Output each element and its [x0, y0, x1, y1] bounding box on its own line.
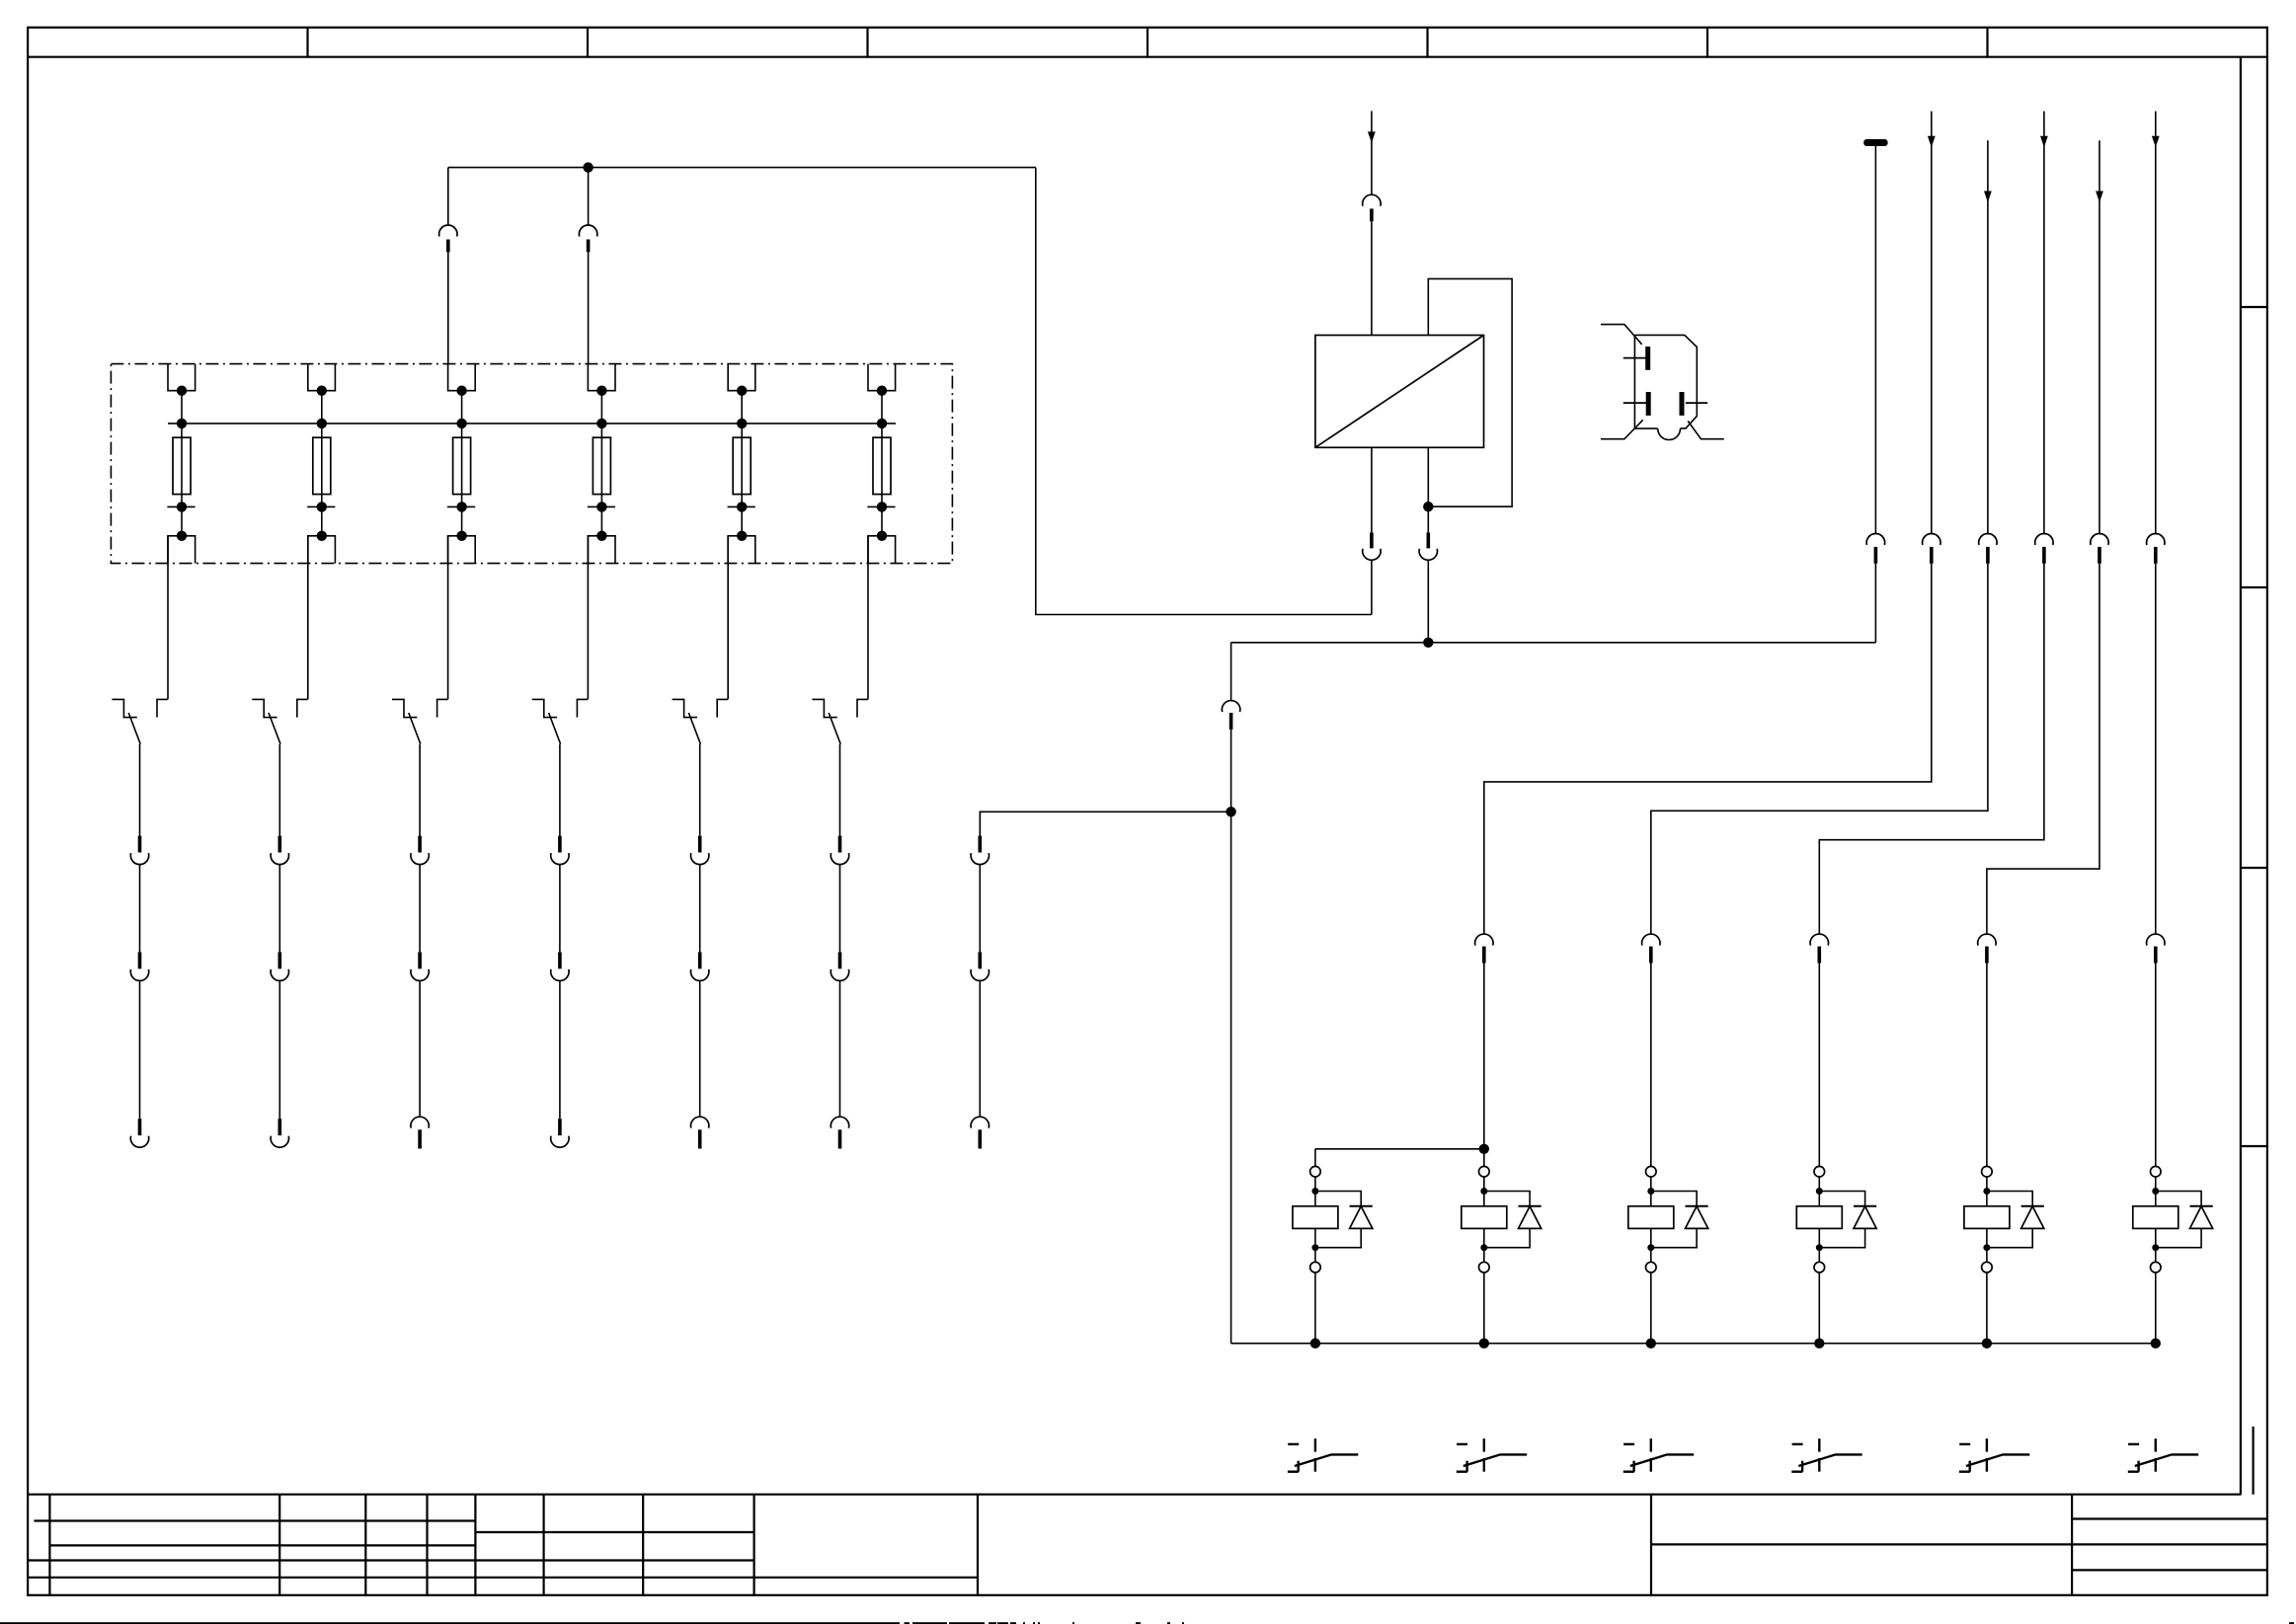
arrow PSU input	[1368, 131, 1376, 143]
terminal X1:4 top bracket	[588, 364, 615, 396]
junction main bus / PSU output	[1423, 638, 1433, 648]
wire left distribution lower	[1230, 730, 1232, 1344]
wire relay feed 3	[1650, 964, 1652, 1167]
wire main bus	[1231, 642, 1876, 644]
node relay K5 diode top	[1983, 1188, 1990, 1195]
wire relay K4 to bus	[1818, 1273, 1820, 1344]
wire relay K2 upper	[1483, 1177, 1485, 1206]
wire PSU input	[1371, 111, 1373, 194]
wire relay feed 4	[1818, 964, 1820, 1167]
terminal X1:6 bottom bracket	[868, 531, 896, 564]
plug-socket connector PSU output right	[1419, 532, 1437, 560]
fuse F5	[733, 437, 751, 494]
wire top feed 3 upper	[447, 168, 449, 225]
fuse F6	[873, 437, 891, 494]
plug-socket connector right line 5	[2091, 533, 2108, 563]
plug-socket connector column 4 level C	[551, 1119, 569, 1147]
plug-socket connector column 2 level C	[271, 1119, 288, 1147]
wire column 5 A-B	[699, 865, 701, 953]
wire fuse 5 output	[727, 536, 729, 700]
terminal tick X1:2 mid	[307, 502, 335, 511]
wire XP1 lead bottom-right	[1688, 421, 1724, 438]
node relay K1 diode top	[1311, 1188, 1318, 1195]
terminal tick X1:3 mid	[447, 502, 475, 511]
plug-socket connector column 1 level A	[130, 836, 148, 865]
plug-socket connector right line 2	[1923, 533, 1940, 563]
junction fuse column 1 / bus	[177, 419, 187, 428]
wire relay K2 lower	[1483, 1228, 1485, 1262]
wire PSU feedback loop	[1428, 278, 1512, 506]
plug-socket connector column 3 level B	[411, 952, 429, 980]
wire switch S6 to connectors	[839, 744, 841, 836]
terminal strip box X1 (dash-dot boundary)	[111, 364, 952, 564]
contact K2 auxiliary	[1457, 1438, 1527, 1472]
junction relay K2 / bottom bus	[1479, 1339, 1489, 1349]
switch S6	[812, 699, 867, 743]
node T-bar top line 1	[1863, 139, 1887, 146]
relay coil K2	[1462, 1206, 1507, 1229]
wire column 6 A-B	[839, 865, 841, 953]
wire fuse column 5	[741, 391, 743, 536]
plug-socket connector column 1 level C	[130, 1119, 148, 1147]
wire fuse column 1	[181, 391, 183, 536]
wire relay K4 lower	[1818, 1228, 1820, 1262]
arrow right line 4	[2040, 136, 2048, 148]
wire right line 1 lower	[1874, 564, 1876, 643]
plug-socket connector PSU output left	[1363, 532, 1381, 560]
wire relay feed 2	[1483, 964, 1485, 1149]
junction fuse column 2 / bus	[317, 419, 327, 428]
plug-socket connector right line 1	[1866, 533, 1884, 563]
wire relay K5 lower	[1986, 1228, 1988, 1262]
wire bottom bus	[1231, 1343, 2156, 1345]
terminal circle relay K1 top	[1310, 1166, 1321, 1177]
junction PSU feedback	[1423, 502, 1433, 511]
plug-socket connector column 2 level A	[271, 836, 288, 865]
wire PSU output left upper	[1371, 447, 1373, 532]
wire column 2 A-B	[278, 865, 280, 953]
wire feed right segment	[1036, 168, 1372, 615]
junction relay K1 / bottom bus	[1310, 1339, 1320, 1349]
plug-socket connector relay feed 6	[2147, 934, 2165, 963]
terminal tick X1:5 mid	[728, 502, 755, 511]
power supply U1	[1315, 336, 1484, 448]
fuse F4	[593, 437, 610, 494]
switch S2	[252, 699, 307, 743]
junction top feed	[583, 162, 593, 172]
plug-socket connector column 7 level C	[971, 1117, 989, 1148]
node relay K4 diode bottom	[1816, 1244, 1823, 1251]
switch S5	[673, 699, 728, 743]
plug-socket connector column 7 level B	[971, 952, 989, 980]
pin XP1:1	[1623, 347, 1648, 370]
wire right line 5 upper	[2098, 140, 2100, 533]
wire right line 4 lower	[1819, 564, 2044, 934]
relay coil K3	[1628, 1206, 1674, 1229]
wire XP1 lead top-left	[1601, 325, 1642, 345]
wire top feed 4 upper	[588, 168, 590, 225]
wire column 1 B-C	[139, 981, 141, 1119]
terminal circle relay K1 bottom	[1310, 1262, 1321, 1273]
terminal X1:2 bottom bracket	[308, 531, 336, 564]
wire right line 4 upper	[2043, 112, 2045, 534]
wire fuse 6 output	[867, 536, 869, 700]
fuse F3	[453, 437, 471, 494]
plug-socket connector column 6 level B	[831, 952, 848, 980]
contact K6 auxiliary	[2128, 1438, 2198, 1472]
wire relay K5 upper	[1986, 1177, 1988, 1206]
terminal circle relay K6 bottom	[2151, 1262, 2162, 1273]
wire column 2 B-C	[278, 981, 280, 1119]
plug-socket connector relay feed 3	[1642, 934, 1660, 963]
wire relay 2 drop	[1483, 1149, 1485, 1167]
wire fuse column 2	[321, 391, 323, 536]
arrow right line 2	[1928, 136, 1936, 148]
wire relay K3 to bus	[1650, 1273, 1652, 1344]
plug-socket connector column 5 level C	[691, 1117, 709, 1148]
wire top feed 4 lower	[588, 252, 590, 363]
wire relay 1 branch	[1315, 1148, 1484, 1150]
wire switch S2 to connectors	[278, 744, 280, 836]
node relay K6 diode top	[2152, 1188, 2159, 1195]
terminal X1:1 top bracket	[168, 364, 196, 396]
arrow right line 6	[2152, 136, 2160, 148]
wire PSU output right lower	[1427, 561, 1429, 643]
junction fuse column 5 / bus	[737, 419, 747, 428]
terminal X1:4 bottom bracket	[588, 531, 615, 564]
wire fuse 4 output	[587, 536, 589, 700]
plug-socket connector right line 6	[2147, 533, 2165, 563]
relay coil K4	[1796, 1206, 1842, 1229]
plug-socket connector relay feed 2	[1475, 934, 1493, 963]
wire column 4 A-B	[559, 865, 561, 953]
terminal tick X1:6 mid	[867, 502, 895, 511]
switch S4	[532, 699, 588, 743]
terminal circle relay K3 bottom	[1646, 1262, 1657, 1273]
wire column 7 A-B	[979, 865, 981, 953]
appliance connector XP1	[1634, 335, 1697, 439]
node relay K3 diode bottom	[1647, 1244, 1654, 1251]
node relay K6 diode bottom	[2152, 1244, 2159, 1251]
plug-socket connector column 4 level A	[551, 836, 569, 865]
diode V3	[1651, 1192, 1708, 1248]
wire XP1 lead bottom-left	[1601, 420, 1643, 438]
contact K5 auxiliary	[1959, 1438, 2029, 1472]
wire column 1 A-B	[139, 865, 141, 953]
junction fuse column 6 / bus	[877, 419, 887, 428]
node relay K4 diode top	[1816, 1188, 1823, 1195]
relay coil K5	[1964, 1206, 2010, 1229]
terminal X1:2 top bracket	[308, 364, 336, 396]
diode V5	[1987, 1192, 2044, 1248]
plug-socket connector relay feed 5	[1978, 934, 1996, 963]
terminal circle relay K5 bottom	[1982, 1262, 1993, 1273]
terminal X1:3 bottom bracket	[448, 531, 476, 564]
node relay K5 diode bottom	[1983, 1244, 1990, 1251]
wire fuse column 6	[881, 391, 883, 536]
wire relay K2 to bus	[1483, 1273, 1485, 1344]
junction relay K5 / bottom bus	[1982, 1339, 1992, 1349]
wire column 4 B-C	[559, 981, 561, 1119]
junction fuse column 3 / bus	[456, 419, 466, 428]
wire relay K3 upper	[1650, 1177, 1652, 1206]
wire top feed 3 lower	[447, 252, 449, 363]
terminal X1:3 top bracket	[448, 364, 476, 396]
plug-socket connector column 7 level A	[971, 836, 989, 865]
terminal X1:1 bottom bracket	[168, 531, 196, 564]
node relay K1 diode bottom	[1311, 1244, 1318, 1251]
wire switch S4 to connectors	[559, 744, 561, 836]
terminal circle relay K6 top	[2151, 1166, 2162, 1177]
diode V4	[1819, 1192, 1876, 1248]
plug-socket connector right line 4	[2035, 533, 2053, 563]
relay coil K6	[2133, 1206, 2178, 1229]
fuse F1	[173, 437, 191, 494]
wire relay feed 5	[1986, 964, 1988, 1167]
wire fuse 2 output	[307, 536, 309, 700]
wire PSU input lower	[1371, 221, 1373, 335]
terminal X1:5 top bracket	[728, 364, 755, 396]
wire right line 3 lower	[1651, 564, 1988, 934]
wire relay K1 upper	[1314, 1177, 1316, 1206]
plug-socket connector column 1 level B	[130, 952, 148, 980]
contact K4 auxiliary	[1791, 1438, 1861, 1472]
wire relay K6 lower	[2155, 1228, 2157, 1262]
wire column 3 B-C	[419, 981, 421, 1117]
wire relay K6 to bus	[2155, 1273, 2157, 1344]
junction relay K6 / bottom bus	[2151, 1339, 2161, 1349]
wire column 6 B-C	[839, 981, 841, 1117]
terminal circle relay K2 top	[1479, 1166, 1490, 1177]
terminal tick X1:1 mid	[167, 502, 195, 511]
wire right line 2 upper	[1931, 112, 1933, 534]
wire fuse 1 output	[167, 536, 169, 700]
terminal circle relay K4 bottom	[1814, 1262, 1825, 1273]
wire column 3 A-B	[419, 865, 421, 953]
diode V6	[2156, 1192, 2213, 1248]
junction distribution / column 7	[1226, 807, 1235, 816]
switch S1	[112, 699, 167, 743]
junction relay 1 branch	[1479, 1144, 1489, 1154]
wire PSU output right upper	[1427, 447, 1429, 532]
wire relay K6 upper	[2155, 1177, 2157, 1206]
wire relay 1 drop	[1314, 1149, 1316, 1167]
node relay K3 diode top	[1647, 1188, 1654, 1195]
wire fuse 3 output	[447, 536, 449, 700]
node relay K2 diode bottom	[1480, 1244, 1487, 1251]
diode V2	[1484, 1192, 1542, 1248]
wire right line 2 lower	[1484, 564, 1932, 934]
wire fuse column 4	[600, 391, 602, 536]
wire right line 6 lower	[2155, 564, 2157, 934]
plug-socket connector column 2 level B	[271, 952, 288, 980]
plug-socket connector column 6 level A	[831, 836, 848, 865]
plug-socket connector column 5 level B	[691, 952, 709, 980]
wire switch S1 to connectors	[139, 744, 141, 836]
node relay K2 diode top	[1480, 1188, 1487, 1195]
wire right line 5 lower	[1987, 564, 2099, 934]
contact K1 auxiliary	[1288, 1438, 1358, 1472]
plug-socket connector column 4 level B	[551, 952, 569, 980]
bus wire (fuse strip)	[168, 423, 896, 425]
terminal X1:6 top bracket	[868, 364, 896, 396]
plug-socket connector column 5 level A	[691, 836, 709, 865]
arrow right line 3	[1984, 192, 1992, 203]
wire left distribution vertical	[1230, 643, 1232, 701]
plug-socket connector distribution	[1222, 701, 1239, 730]
wire right line 3 upper	[1987, 140, 1989, 533]
contact K3 auxiliary	[1623, 1438, 1694, 1472]
wire relay K1 lower	[1314, 1228, 1316, 1262]
junction fuse column 4 / bus	[596, 419, 606, 428]
plug-socket connector PSU input	[1363, 194, 1381, 221]
wire fuse column 3	[461, 391, 463, 536]
pin XP1:3	[1682, 392, 1707, 416]
terminal circle relay K5 top	[1982, 1166, 1993, 1177]
terminal circle relay K2 bottom	[1479, 1262, 1490, 1273]
terminal tick X1:4 mid	[588, 502, 615, 511]
pin XP1:2	[1623, 392, 1648, 416]
plug-socket connector column 6 level C	[831, 1117, 848, 1148]
wire relay K1 to bus	[1314, 1273, 1316, 1344]
junction relay K3 / bottom bus	[1646, 1339, 1656, 1349]
relay coil K1	[1293, 1206, 1338, 1229]
wire relay feed 6	[2155, 964, 2157, 1167]
wire relay K5 to bus	[1986, 1273, 1988, 1344]
wire top feed horizontal	[448, 167, 1036, 169]
wire right line 1 upper	[1874, 146, 1876, 533]
arrow right line 5	[2096, 192, 2103, 203]
wire switch S3 to connectors	[419, 744, 421, 836]
plug-socket connector column 3 level C	[411, 1117, 429, 1148]
wire switch S5 to connectors	[699, 744, 701, 836]
plug-socket connector top feed 4	[579, 225, 596, 252]
junction relay K4 / bottom bus	[1814, 1339, 1824, 1349]
wire column 5 B-C	[699, 981, 701, 1117]
wire right line 6 upper	[2155, 112, 2157, 534]
wire column 7 upper	[979, 812, 981, 835]
terminal circle relay K4 top	[1814, 1166, 1825, 1177]
plug-socket connector right line 3	[1979, 533, 1997, 563]
wire column 7 B-C	[979, 981, 981, 1117]
wire PSU output left lower	[1371, 561, 1373, 615]
plug-socket connector relay feed 4	[1810, 934, 1828, 963]
switch S3	[392, 699, 447, 743]
terminal circle relay K3 top	[1646, 1166, 1657, 1177]
wire relay K4 upper	[1818, 1177, 1820, 1206]
diode V1	[1315, 1192, 1373, 1248]
plug-socket connector column 3 level A	[411, 836, 429, 865]
fuse F2	[313, 437, 331, 494]
plug-socket connector top feed 3	[439, 225, 457, 252]
wire column 7 link	[980, 812, 1230, 835]
wire relay K3 lower	[1650, 1228, 1652, 1262]
terminal X1:5 bottom bracket	[728, 531, 755, 564]
